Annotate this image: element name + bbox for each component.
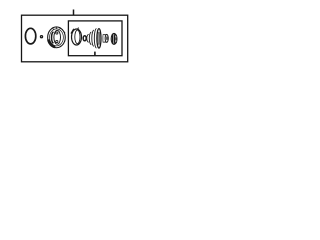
inner rim ellipse xyxy=(50,29,64,46)
CV boot bellows (part E) xyxy=(83,29,101,48)
ball top xyxy=(56,32,58,34)
rim hatch ticks xyxy=(59,28,62,30)
small ribbed clamp (part G) xyxy=(111,33,117,44)
large snap ring (part A) xyxy=(25,28,35,44)
clamp top tab xyxy=(78,27,79,30)
hub shade crescent xyxy=(52,32,54,44)
small washer (part B) xyxy=(40,35,43,38)
ball bottom xyxy=(56,40,58,42)
clamp band seam xyxy=(71,29,74,34)
ridge arc 2 xyxy=(89,32,91,44)
boot big end xyxy=(97,29,101,48)
ridge arc 3 xyxy=(92,30,94,46)
inner kit box xyxy=(68,21,122,56)
thick dark bottom-left rim arc xyxy=(48,40,55,48)
ridge arc 4 xyxy=(94,29,96,48)
CV joint disc (part C) xyxy=(48,27,66,48)
background xyxy=(0,0,150,79)
outer packaging rectangle xyxy=(22,15,128,62)
top tick mark xyxy=(73,10,75,16)
outer housing ellipse xyxy=(48,27,66,48)
boot clamp ring (part D) xyxy=(71,28,82,45)
cage oblong xyxy=(54,30,61,44)
ridge arc 1 xyxy=(87,34,89,42)
boot neck cylinder (part F) xyxy=(103,34,109,42)
bottom tick mark xyxy=(94,52,96,56)
boot neck ring xyxy=(83,36,86,41)
